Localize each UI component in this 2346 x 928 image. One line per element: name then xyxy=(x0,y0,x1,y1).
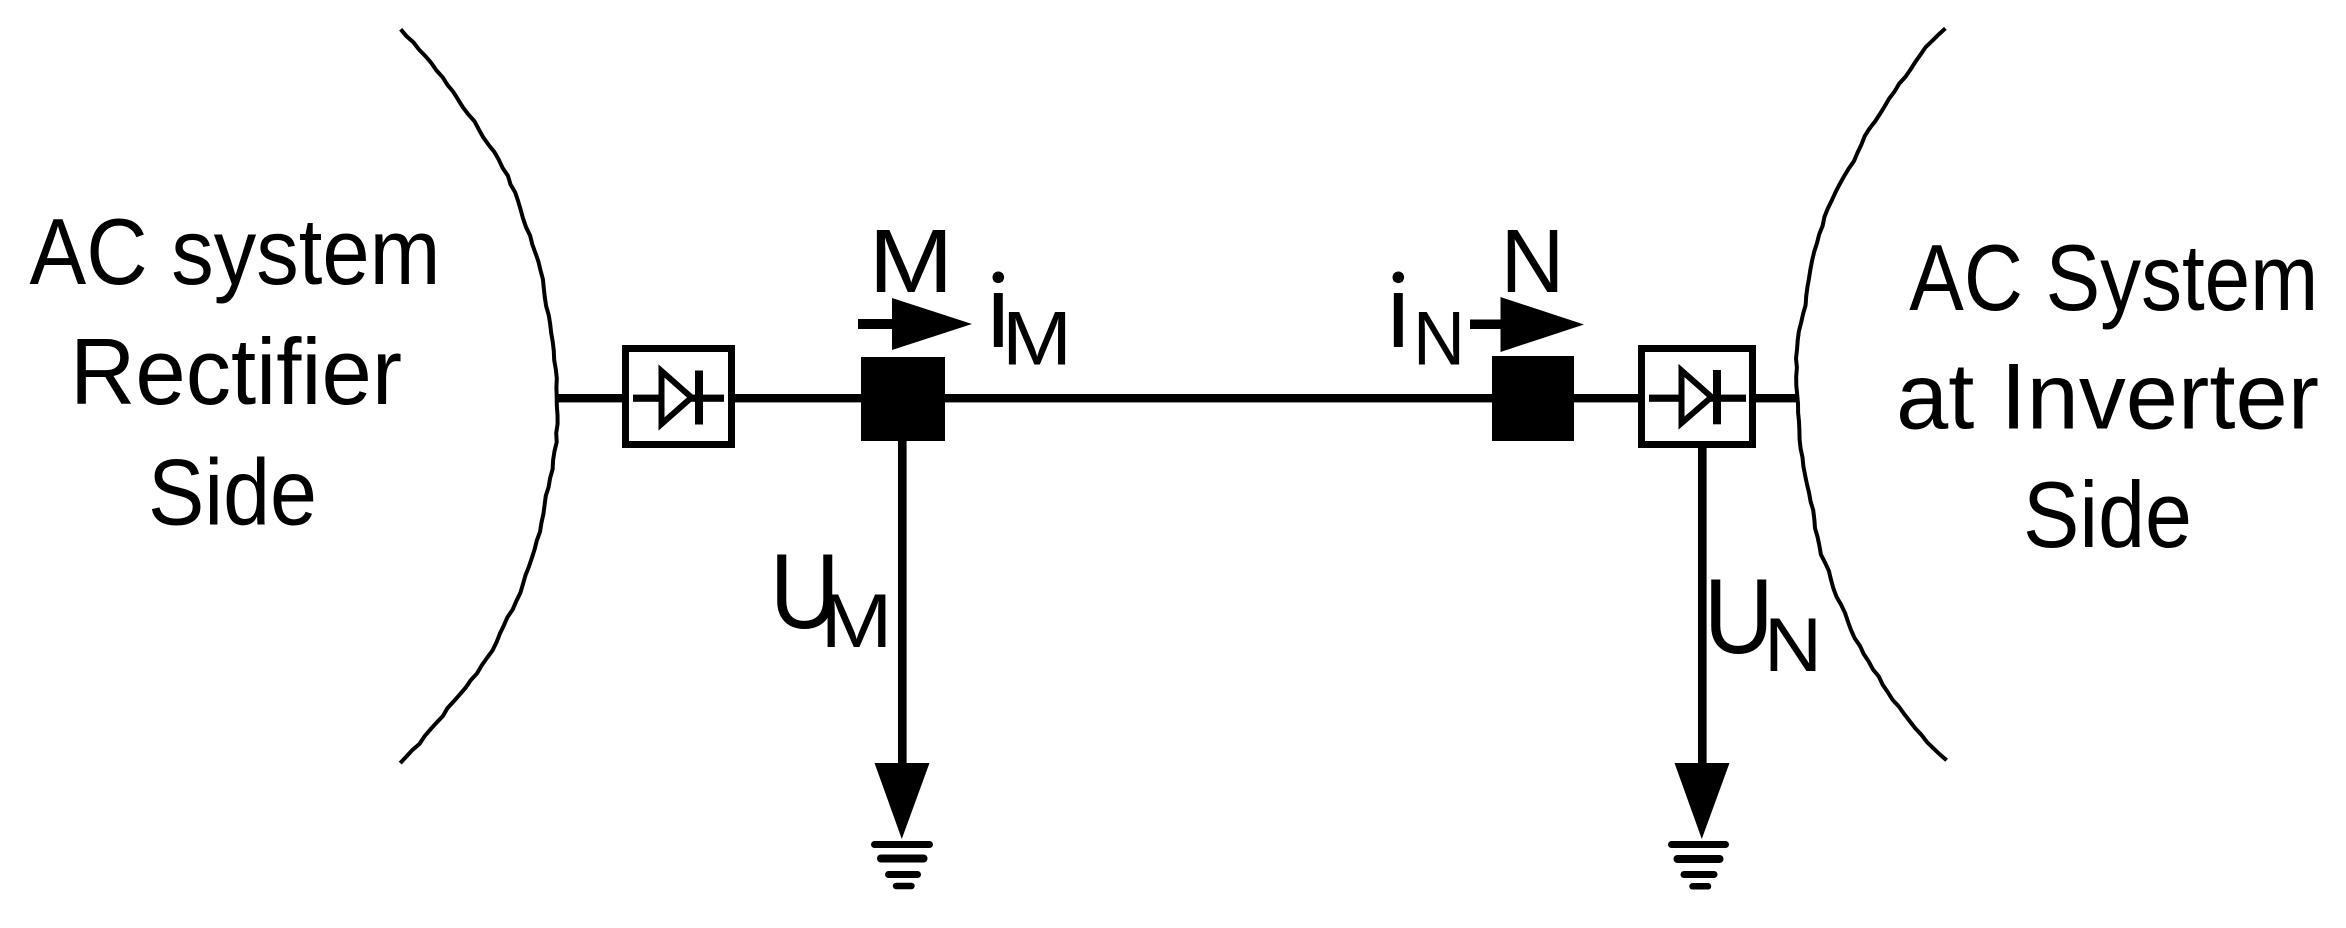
svg-text:M: M xyxy=(821,579,893,664)
ground symbol right, bar 2 xyxy=(1678,855,1720,863)
svg-text:M: M xyxy=(869,212,954,312)
svg-text:N: N xyxy=(1501,212,1565,312)
diode cathode bar (rectifier box) xyxy=(695,371,703,425)
current arrow tail at node N xyxy=(1470,320,1505,330)
ground symbol right, bar 1 xyxy=(1672,841,1726,848)
dot of letter i (at M) xyxy=(993,272,1005,284)
diode cathode bar (inverter box) xyxy=(1713,370,1721,424)
wire: node N to inverter converter box xyxy=(1574,394,1641,402)
diode horizontal lead inside rectifier box xyxy=(633,395,724,402)
AC system boundary arc, inverter side xyxy=(1796,28,1947,760)
node M filled square xyxy=(861,357,945,441)
dot of letter i (at N) xyxy=(1393,272,1405,284)
wire: node M down to ground xyxy=(898,441,907,764)
voltage arrow head (right, U_N) xyxy=(1675,763,1730,839)
diode anode triangle (rectifier box) xyxy=(662,371,692,424)
svg-text:at Inverter: at Inverter xyxy=(1896,344,2319,449)
current arrow head at node N xyxy=(1501,297,1585,352)
ground symbol left, bar 1 xyxy=(875,841,930,848)
converter valve box (rectifier side) xyxy=(626,349,732,445)
svg-text:Rectifier: Rectifier xyxy=(70,319,402,424)
voltage arrow head (left, U_M) xyxy=(875,763,930,839)
svg-text:AC System: AC System xyxy=(1909,225,2318,330)
ground symbol right, bar 3 xyxy=(1684,871,1714,878)
ground symbol left, bar 3 xyxy=(889,871,918,878)
svg-text:Side: Side xyxy=(148,440,317,545)
ground symbol left, bar 2 xyxy=(881,855,924,863)
converter valve box (inverter side) xyxy=(1642,349,1753,445)
ground symbol right, bar 4 xyxy=(1693,883,1709,890)
diode anode triangle (inverter box) xyxy=(1682,371,1712,424)
diode horizontal lead inside inverter box xyxy=(1649,395,1746,402)
ground symbol left, bar 4 xyxy=(896,883,912,890)
wire: rectifier box to node M xyxy=(735,394,861,402)
svg-text:N: N xyxy=(1413,297,1465,382)
current arrow tail at node M xyxy=(858,319,896,329)
svg-text:Side: Side xyxy=(2023,462,2192,567)
current arrow head at node M xyxy=(892,298,972,350)
wire: left AC system to rectifier converter box xyxy=(556,394,623,402)
node N filled square xyxy=(1492,356,1574,441)
wire: DC line from node M to node N xyxy=(945,394,1492,402)
svg-text:AC system: AC system xyxy=(30,199,441,304)
svg-text:M: M xyxy=(1002,297,1072,382)
wire: inverter box to right AC system xyxy=(1753,394,1798,402)
wire: inverter box down to ground xyxy=(1698,448,1707,764)
svg-text:N: N xyxy=(1764,603,1822,688)
AC system boundary arc, rectifier side xyxy=(400,29,557,763)
